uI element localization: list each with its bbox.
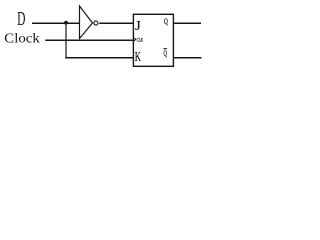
wire Q output — [174, 22, 202, 24]
wire branch to K input — [65, 57, 133, 59]
wire vertical branch from D junction — [65, 23, 67, 58]
inverter U1 output bubble — [94, 21, 98, 25]
wire D input — [32, 22, 80, 24]
svg-text:CLK: CLK — [137, 38, 144, 44]
junction dot on D wire — [64, 21, 68, 25]
svg-text:K: K — [135, 49, 141, 64]
overline of Q-bar — [163, 48, 167, 50]
pin clock edge marker — [134, 38, 136, 41]
svg-text:D: D — [17, 8, 25, 30]
svg-text:J: J — [135, 18, 141, 33]
flip-flop U2 body — [133, 14, 173, 66]
inverter U1 triangle — [80, 6, 93, 39]
wire Q-bar output — [174, 57, 202, 59]
svg-text:Clock: Clock — [4, 30, 40, 45]
wire inverter output to J input — [99, 22, 133, 24]
wire Clock to CLK — [45, 39, 133, 41]
svg-text:Q: Q — [164, 49, 168, 58]
svg-text:Q: Q — [164, 17, 168, 26]
